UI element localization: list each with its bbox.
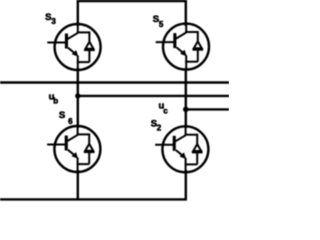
svg-text:2: 2 (157, 124, 162, 133)
svg-text:b: b (53, 97, 58, 106)
svg-text:c: c (163, 106, 168, 115)
svg-text:6: 6 (68, 117, 73, 126)
svg-text:3: 3 (51, 17, 56, 26)
svg-text:5: 5 (159, 20, 164, 29)
svg-text:S: S (59, 110, 65, 121)
